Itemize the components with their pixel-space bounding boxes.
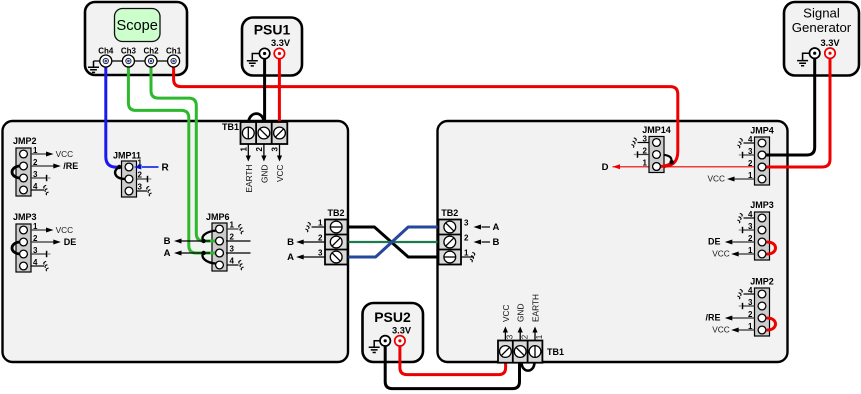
svg-text:3: 3 (506, 334, 515, 339)
wire PSU1 positive to left TB1 pin3 VCC (red) (278, 54, 281, 123)
svg-text:3: 3 (33, 246, 38, 255)
jumper shunt JMP3 pins 1-2 (red) (767, 242, 776, 254)
terminal block TB1 (left board top) (222, 122, 287, 144)
jumper wire left TB1 pin1 EARTH to pin2 GND (black hump) (248, 114, 264, 124)
pin JMP4 2 (758, 163, 766, 171)
wire PSU2 positive to right TB1 pin3 VCC (red) (400, 341, 506, 375)
ground PSU1 (247, 54, 260, 66)
svg-text:VCC: VCC (56, 225, 74, 235)
wire scope Ch3 to JMP6 pin3 (green probe) (128, 61, 216, 253)
svg-text:A: A (287, 252, 294, 263)
svg-text:1: 1 (643, 158, 648, 167)
connector PSU2 positive jack (395, 336, 405, 346)
svg-text:1: 1 (535, 334, 544, 339)
svg-text:1: 1 (33, 146, 38, 155)
right RS-485 board (438, 121, 788, 362)
svg-text:2: 2 (748, 159, 753, 168)
svg-text:TB1: TB1 (222, 122, 239, 132)
svg-text:3: 3 (33, 170, 38, 179)
terminal block TB2 (right board left edge) (439, 208, 462, 265)
wire A/B bus: left TB2 pin1 to right TB2 pin1 (black crossover) (347, 227, 439, 257)
PSU2 box (363, 303, 424, 362)
svg-text:VCC: VCC (501, 304, 511, 322)
jumper shunt JMP6 pins 3-4 (black) (202, 253, 216, 264)
svg-text:JMP2: JMP2 (750, 277, 774, 287)
svg-text:VCC: VCC (56, 149, 74, 159)
svg-text:TB2: TB2 (327, 208, 344, 218)
svg-text:3: 3 (464, 219, 469, 228)
wire green into JMP6 pin3 (overlay) (210, 252, 217, 255)
wire red into JMP4 pin2 (overlay) (765, 166, 776, 169)
svg-text:GND: GND (259, 164, 269, 182)
wire signal generator negative to JMP4 pin3 (black) (767, 53, 815, 155)
signal generator box (784, 2, 859, 76)
svg-text:2: 2 (138, 170, 143, 179)
svg-text:PSU2: PSU2 (374, 309, 411, 325)
jumper shunt JMP3 pins 2-3 (black) (12, 242, 20, 254)
svg-text:EARTH: EARTH (244, 165, 254, 193)
svg-text:2: 2 (520, 334, 529, 339)
pin lines and labels left TB2 (287, 219, 325, 263)
jumper shunt JMP14 pin2 to red wire (black) (664, 155, 672, 162)
svg-text:1: 1 (464, 249, 469, 258)
scope screen (115, 9, 161, 42)
connector scope Ch1 (166, 47, 182, 68)
wire scope Ch4 to JMP11 (blue probe) (106, 61, 119, 167)
svg-text:2: 2 (748, 310, 753, 319)
connector PSU1 positive jack (274, 48, 284, 58)
svg-text:3: 3 (748, 298, 753, 307)
node junction green wire at JMP6 pin2 (201, 239, 205, 243)
svg-text:VCC: VCC (707, 173, 725, 183)
svg-text:VCC: VCC (712, 248, 730, 258)
wire scope Ch2 to JMP6 pin2 (green probe) (151, 61, 216, 241)
svg-text:1: 1 (748, 322, 753, 331)
header JMP6 (left board) (164, 212, 251, 271)
svg-text:4: 4 (33, 258, 38, 267)
svg-text:TB1: TB1 (547, 347, 564, 357)
wire scope input bus line (94, 60, 174, 62)
svg-text:Scope: Scope (117, 18, 158, 34)
svg-text:A: A (164, 248, 171, 259)
svg-text:3.3V: 3.3V (271, 38, 291, 48)
svg-text:1: 1 (230, 221, 235, 230)
connector PSU1 negative jack (259, 48, 269, 58)
arrowhead net D (613, 164, 621, 169)
svg-text:B: B (287, 237, 294, 248)
svg-text:JMP3: JMP3 (750, 200, 774, 210)
svg-text:JMP2: JMP2 (13, 136, 37, 146)
connector signal generator positive jack (825, 48, 835, 58)
svg-text:2: 2 (230, 233, 235, 242)
wire green into JMP6 pin2 (overlay) (210, 240, 217, 243)
svg-text:3.3V: 3.3V (820, 38, 840, 48)
header JMP2 (left board) (12, 136, 78, 196)
svg-text:3.3V: 3.3V (392, 326, 412, 336)
svg-text:4: 4 (33, 182, 38, 191)
svg-text:3: 3 (748, 222, 753, 231)
left RS-485 board (3, 121, 349, 362)
svg-text:3: 3 (230, 245, 235, 254)
svg-text:1: 1 (748, 171, 753, 180)
wire A/B bus: left TB2 pin2 to right TB2 pin2 (dark green) (347, 241, 439, 243)
PSU1 box (242, 18, 302, 76)
svg-text:2: 2 (255, 146, 264, 151)
connector scope Ch4 (98, 47, 114, 68)
wire red into JMP14 pin1 (overlay) (658, 164, 672, 167)
svg-text:1: 1 (318, 219, 323, 228)
pin arrows and labels below left TB1 (239, 144, 285, 192)
jumper shunt JMP2 pins 1-2 (red) (767, 318, 776, 330)
svg-text:D: D (602, 162, 609, 173)
pin JMP14 1 (653, 163, 661, 171)
svg-text:EARTH: EARTH (531, 294, 541, 322)
pin lines and labels right TB2 (461, 219, 500, 263)
svg-text:1: 1 (239, 146, 248, 151)
node junction JMP14 red wire (669, 160, 673, 164)
svg-text:Ch4: Ch4 (98, 47, 114, 56)
svg-text:PSU1: PSU1 (254, 22, 291, 38)
svg-text:3: 3 (318, 249, 323, 258)
svg-text:2: 2 (464, 234, 469, 243)
svg-text:Ch3: Ch3 (121, 47, 137, 56)
svg-text:JMP3: JMP3 (13, 212, 37, 222)
svg-text:VCC: VCC (275, 165, 285, 183)
svg-text:TB2: TB2 (441, 208, 458, 218)
svg-text:/RE: /RE (705, 313, 720, 323)
svg-text:B: B (493, 237, 500, 248)
arrowhead and label net R at JMP11 pin1 (blue) (134, 162, 170, 173)
svg-text:JMP6: JMP6 (206, 212, 230, 222)
connector signal generator negative jack (810, 48, 820, 58)
connector scope Ch2 (143, 47, 159, 68)
svg-text:R: R (162, 162, 170, 173)
jumper shunt JMP2 pins 2-3 (black) (12, 166, 20, 178)
header JMP14 (right board) (631, 125, 670, 173)
terminal block TB2 (left board right edge) (325, 208, 348, 265)
svg-text:3: 3 (748, 147, 753, 156)
connector PSU2 negative jack (380, 336, 390, 346)
svg-text:1: 1 (748, 246, 753, 255)
svg-text:2: 2 (748, 234, 753, 243)
terminal block TB1 (right board bottom) (498, 341, 564, 363)
wire scope Ch1 to JMP14 pin1 (red probe) (174, 61, 678, 167)
svg-text:4: 4 (748, 286, 753, 295)
svg-text:Signal: Signal (803, 6, 840, 21)
jumper wire right TB1 pin2 GND to pin1 EARTH (black loop below board) (522, 362, 535, 371)
wire A/B bus: left TB2 pin3 to right TB2 pin3 (blue crossover) (347, 227, 439, 257)
svg-text:DE: DE (64, 237, 77, 247)
ground scope (88, 61, 99, 72)
header JMP3 (left board) (12, 212, 76, 272)
svg-text:3: 3 (643, 134, 648, 143)
svg-text:3: 3 (271, 146, 280, 151)
svg-text:3: 3 (138, 182, 143, 191)
header JMP4 (right board) (707, 126, 773, 186)
svg-text:4: 4 (748, 135, 753, 144)
svg-text:4: 4 (748, 210, 753, 219)
ground signal generator (797, 53, 809, 66)
svg-text:1: 1 (33, 222, 38, 231)
svg-text:VCC: VCC (712, 324, 730, 334)
svg-text:2: 2 (33, 158, 38, 167)
header JMP11 (left board) (113, 151, 152, 198)
wire signal generator positive to JMP4 pin2 (red) (767, 53, 831, 167)
svg-text:Ch1: Ch1 (166, 47, 182, 56)
connector scope Ch3 (121, 47, 137, 68)
svg-text:2: 2 (318, 234, 323, 243)
svg-text:2: 2 (643, 146, 648, 155)
svg-text:Generator: Generator (792, 20, 852, 35)
pin arrows and labels above right TB1 (501, 294, 544, 340)
jumper shunt JMP11 pins 1-2 (black) (115, 167, 125, 179)
wire PSU1 negative to left TB1 pin2 GND (black) (263, 54, 266, 123)
oscilloscope box (85, 2, 187, 75)
node junction green wire at JMP6 pin3 (201, 251, 205, 255)
net D (thin red line from D arrow through JMP14 pin1 to JMP4 pin2) (613, 166, 758, 168)
pin JMP6 2 (216, 237, 224, 245)
svg-text:JMP4: JMP4 (750, 126, 774, 136)
svg-text:/RE: /RE (63, 161, 78, 171)
node junction blue wire at JMP11 pin1 (117, 165, 121, 169)
svg-text:A: A (493, 222, 500, 233)
svg-text:2: 2 (33, 234, 38, 243)
jumper shunt JMP6 pins 1-2 (black) (202, 231, 216, 241)
ground PSU2 (369, 341, 380, 353)
pin JMP4 3 (758, 151, 766, 159)
header JMP3 (right board) (708, 200, 774, 260)
svg-text:DE: DE (708, 237, 721, 247)
svg-text:B: B (164, 236, 171, 247)
svg-text:4: 4 (230, 257, 235, 266)
svg-text:GND: GND (516, 304, 526, 322)
wire PSU2 negative to right TB1 pin2 GND (black) (385, 341, 519, 389)
header JMP2 (right board) (705, 277, 773, 337)
svg-text:Ch2: Ch2 (143, 47, 159, 56)
pin JMP6 3 (216, 249, 224, 257)
wire black into JMP4 pin3 (overlay) (765, 154, 776, 157)
